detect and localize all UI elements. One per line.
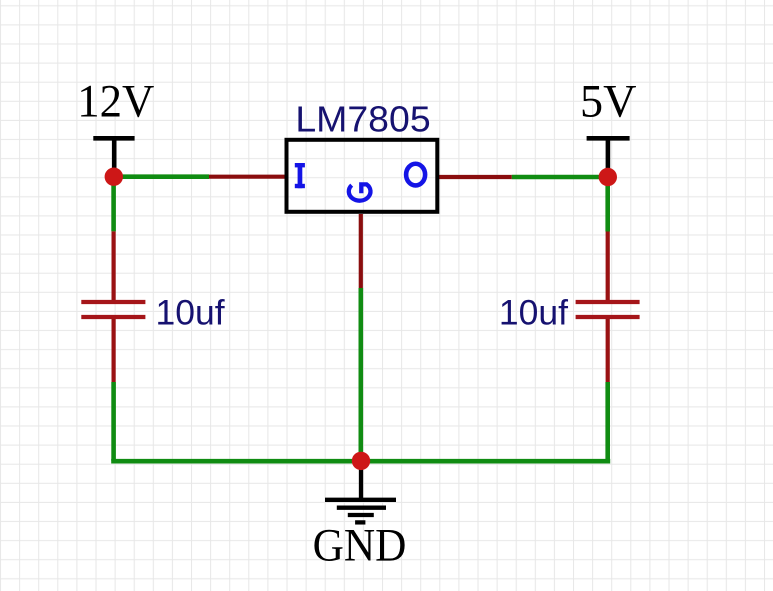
wire net VIN top-left horizontal (112, 174, 209, 179)
regulator U1 pin name O (406, 164, 425, 186)
svg-text:12V: 12V (77, 74, 154, 126)
ground symbol (325, 461, 396, 522)
wire net VOUT top-right horizontal (512, 175, 609, 180)
regulator U1 pin G lead (359, 214, 363, 288)
svg-text:GND: GND (313, 519, 407, 571)
svg-text:10uf: 10uf (156, 292, 225, 332)
wire net GND right vertical lower (605, 382, 610, 461)
junction node VOUT (599, 168, 617, 186)
capacitor C1 (81, 231, 145, 382)
regulator U1 pin name I (295, 163, 305, 188)
junction node VIN (105, 168, 123, 186)
power flag 5V symbol (587, 138, 630, 174)
wire net GND middle vertical (358, 288, 363, 461)
regulator U1 pin O lead (438, 175, 512, 179)
svg-text:10uf: 10uf (499, 292, 568, 332)
regulator U1 pin name G (rotated) (349, 184, 371, 200)
wire net GND bottom horizontal (111, 459, 610, 464)
junction node GND (352, 452, 370, 470)
svg-text:5V: 5V (580, 75, 637, 127)
wire net VOUT right vertical upper (605, 175, 610, 232)
capacitor C2 (576, 232, 640, 383)
svg-text:LM7805: LM7805 (295, 99, 430, 139)
wire net VIN left vertical upper (111, 175, 116, 231)
power flag 12V symbol (93, 138, 134, 174)
regulator U1 LM7805 body (287, 140, 438, 212)
regulator U1 pin I lead (209, 175, 286, 179)
wire net GND left vertical lower (111, 382, 116, 461)
